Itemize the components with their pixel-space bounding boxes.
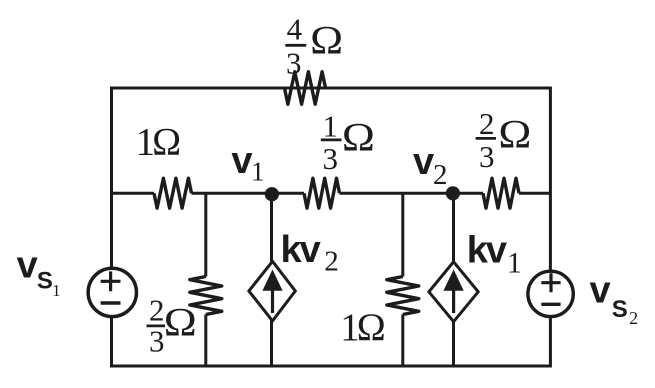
svg-text:Ω: Ω xyxy=(310,17,343,62)
svg-text:3: 3 xyxy=(479,139,495,174)
wire mid rail seg1 xyxy=(111,192,154,195)
svg-text:1Ω: 1Ω xyxy=(136,120,180,163)
svg-text:v: v xyxy=(590,270,611,312)
svg-text:S: S xyxy=(612,296,628,323)
vs1 plus sign xyxy=(101,271,121,291)
svg-text:1: 1 xyxy=(507,246,522,279)
label 4/3 fraction bar xyxy=(285,44,306,47)
svg-text:2: 2 xyxy=(324,246,339,278)
kv2 arrowhead xyxy=(262,270,282,291)
resistor R 4/3 ohm (top) xyxy=(285,72,326,105)
svg-text:2: 2 xyxy=(479,106,495,141)
resistor R 1/3 ohm (horizontal) xyxy=(304,178,340,208)
vs1 minus sign xyxy=(101,301,121,304)
dependent source kv2 diamond xyxy=(249,261,295,321)
vs2 minus sign xyxy=(541,303,560,306)
svg-text:S: S xyxy=(37,268,53,295)
voltage source vs2 circle xyxy=(528,271,573,316)
svg-text:1Ω: 1Ω xyxy=(340,306,384,349)
svg-text:kv: kv xyxy=(281,229,321,271)
vs2 plus sign xyxy=(541,273,560,292)
wire branch 1 ohm upper xyxy=(401,193,404,276)
label 2/3 left fraction bar xyxy=(147,324,166,327)
svg-text:v: v xyxy=(231,140,252,182)
node v1 dot xyxy=(265,187,279,201)
wire branch 1 ohm lower xyxy=(401,315,404,367)
wire branch 2/3 ohm upper xyxy=(204,193,207,276)
node v2 dot xyxy=(446,186,460,200)
kv2 arrow shaft xyxy=(271,289,274,314)
resistor R 1 ohm (horizontal) xyxy=(154,178,192,208)
resistor R 2/3 ohm (vertical left) xyxy=(190,277,222,315)
svg-text:v: v xyxy=(413,141,434,183)
svg-text:3: 3 xyxy=(149,324,165,359)
voltage source vs1 circle xyxy=(88,268,136,316)
svg-text:Ω: Ω xyxy=(342,114,375,159)
svg-text:kv: kv xyxy=(467,229,507,271)
svg-text:Ω: Ω xyxy=(498,112,531,157)
svg-text:1: 1 xyxy=(323,109,339,144)
kv1 arrowhead xyxy=(443,270,463,291)
label 1/3 fraction bar xyxy=(321,138,342,141)
wire outer loop: left rail lower + bottom rail + right rail lower xyxy=(112,317,551,366)
svg-text:1: 1 xyxy=(251,157,265,187)
svg-text:2: 2 xyxy=(629,308,638,328)
svg-text:2: 2 xyxy=(433,159,448,191)
wire branch 2/3 ohm lower xyxy=(204,315,207,367)
wire mid rail seg3 xyxy=(340,192,484,195)
svg-text:3: 3 xyxy=(323,141,339,176)
svg-text:1: 1 xyxy=(52,281,61,300)
wire branch kv2 lower xyxy=(270,319,273,366)
wire mid rail seg2 xyxy=(192,192,305,195)
wire branch kv1 lower xyxy=(452,320,455,366)
wire branch kv1 upper xyxy=(452,193,455,263)
kv1 arrow shaft xyxy=(452,289,455,314)
svg-text:2: 2 xyxy=(149,293,165,328)
dependent source kv1 diamond xyxy=(429,262,478,322)
wire mid rail seg4 xyxy=(519,192,551,195)
wire branch kv2 upper xyxy=(270,193,273,263)
wire outer loop: left rail upper + top rail + right rail upper xyxy=(112,88,551,270)
svg-text:3: 3 xyxy=(286,45,302,80)
label 2/3 right fraction bar xyxy=(476,137,496,140)
resistor R 1 ohm (vertical) xyxy=(387,277,419,315)
svg-text:4: 4 xyxy=(287,12,303,47)
resistor R 2/3 ohm (horizontal right) xyxy=(483,178,519,208)
svg-text:Ω: Ω xyxy=(164,300,197,345)
svg-text:v: v xyxy=(17,245,38,287)
